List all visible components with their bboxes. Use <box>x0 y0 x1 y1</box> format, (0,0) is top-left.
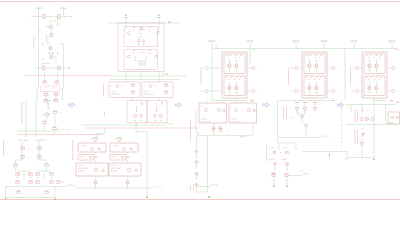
svg-text:BMW_MW1: BMW_MW1 <box>144 94 154 96</box>
svg-text:LM1_R: LM1_R <box>68 185 75 187</box>
svg-text:1M_1R: 1M_1R <box>387 123 394 125</box>
svg-text:y_0: y_0 <box>45 87 48 89</box>
svg-text:y_0: y_0 <box>52 87 55 89</box>
svg-text:A-M30: A-M30 <box>111 170 117 173</box>
svg-text:R_1: R_1 <box>27 157 31 159</box>
svg-text:n: n <box>154 85 155 87</box>
svg-text:BMW_MW1: BMW_MW1 <box>231 121 241 123</box>
svg-text:LM_1R: LM_1R <box>322 136 329 138</box>
svg-text:y-n30: y-n30 <box>112 157 117 159</box>
svg-text:y_10: y_10 <box>43 101 47 103</box>
svg-text:A-M30: A-M30 <box>282 158 288 161</box>
svg-text:R1: R1 <box>62 182 64 184</box>
svg-text:y n: y n <box>201 106 204 108</box>
svg-text:LM1_R: LM1_R <box>155 186 162 188</box>
svg-text:y-n30: y-n30 <box>80 157 85 159</box>
svg-text:1-y39: 1-y39 <box>270 147 275 149</box>
svg-text:4-y30 h: 4-y30 h <box>111 165 117 167</box>
svg-text:BMW_MW1: BMW_MW1 <box>111 168 121 170</box>
svg-text:y n: y n <box>231 106 234 108</box>
svg-text:1-y39: 1-y39 <box>283 147 288 149</box>
svg-text:h 10: h 10 <box>345 159 350 161</box>
svg-text:y1: y1 <box>39 28 41 31</box>
svg-text:BMW_MW1: BMW_MW1 <box>201 121 211 123</box>
svg-text:n1: n1 <box>309 117 311 119</box>
svg-text:y_10: y_10 <box>51 101 55 103</box>
svg-text:LM1_A30: LM1_A30 <box>36 139 46 142</box>
svg-text:R_1: R_1 <box>28 148 32 150</box>
svg-text:4-y30 h: 4-y30 h <box>111 91 117 93</box>
svg-text:1M_12R: 1M_12R <box>62 129 71 131</box>
svg-text:A-M30: A-M30 <box>269 158 275 161</box>
svg-text:4-y30 h: 4-y30 h <box>78 165 84 167</box>
svg-text:10.0k: 10.0k <box>137 37 142 39</box>
svg-text:RM1_A30: RM1_A30 <box>19 139 29 142</box>
svg-text:y: y <box>144 85 145 87</box>
svg-text:LM1_R: LM1_R <box>303 174 310 176</box>
svg-text:4-y30 h: 4-y30 h <box>144 91 150 93</box>
svg-text:LM_1R: LM_1R <box>166 123 173 125</box>
svg-text:y: y <box>111 85 112 87</box>
svg-text:BMW_MW1: BMW_MW1 <box>111 94 121 96</box>
svg-text:n1: n1 <box>290 117 292 119</box>
svg-text:A-M30: A-M30 <box>78 170 84 173</box>
svg-text:bM_1R: bM_1R <box>240 136 247 138</box>
svg-text:1-y39 h: 1-y39 h <box>80 145 86 147</box>
svg-text:n n: n n <box>226 130 229 132</box>
svg-text:BMW_MW1: BMW_MW1 <box>78 168 88 170</box>
svg-text:LM_1R: LM_1R <box>211 185 218 187</box>
svg-text:n: n <box>121 85 122 87</box>
svg-text:LM RM: LM RM <box>140 52 147 54</box>
svg-text:1-y39 h: 1-y39 h <box>112 145 118 147</box>
svg-text:h.w: h.w <box>300 171 304 173</box>
